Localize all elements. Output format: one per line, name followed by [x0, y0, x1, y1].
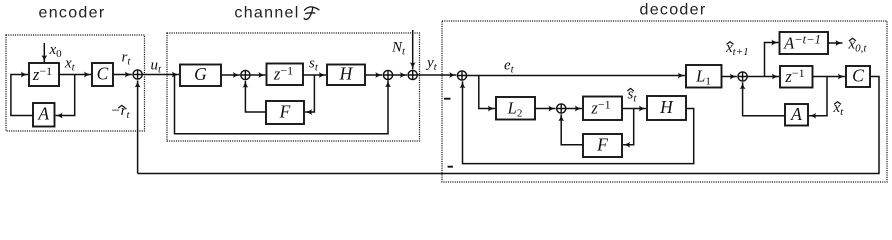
- wire ut feedthrough down and into post-H sum: [175, 75, 389, 134]
- summing junction noise: [408, 70, 417, 79]
- wire F decoder feedback into loop sum: [561, 114, 583, 145]
- wire xt branch down to A: [56, 75, 75, 116]
- svg-text:xt: xt: [64, 56, 76, 74]
- block H decoder: [647, 96, 686, 120]
- block F decoder: [583, 134, 622, 157]
- wire F feedback into channel sum: [245, 81, 266, 112]
- block A decoder: [785, 104, 808, 126]
- summing junction decoder input: [457, 71, 466, 80]
- block z^-1 decoder loop: [583, 97, 622, 121]
- block H channel: [327, 64, 365, 86]
- wire xhat_t+1 branch up to A^-t-1: [765, 43, 779, 77]
- wire rt from C to sum: [113, 74, 132, 76]
- wire A decoder feedback into state sum: [743, 82, 785, 116]
- wire st from z^-1 to H: [303, 74, 326, 76]
- node shat_t label: [627, 87, 637, 105]
- wire state sum to z^-1: [747, 76, 779, 78]
- node st label: [309, 56, 319, 74]
- svg-text:channel: channel: [234, 5, 299, 22]
- wire H to feedthrough sum: [365, 74, 382, 76]
- wire G to channel sum: [221, 74, 240, 76]
- decoder section label: [640, 2, 707, 19]
- summing junction decoder loop: [557, 104, 566, 113]
- node xhat_0t label: [848, 37, 868, 55]
- svg-text:ut: ut: [151, 58, 163, 76]
- wire sum to z^-1 channel: [250, 74, 265, 76]
- wire A feedback to z^-1: [11, 75, 33, 116]
- summing junction decoder state: [738, 72, 747, 81]
- svg-text:decoder: decoder: [640, 2, 707, 19]
- summing junction encoder: [133, 70, 142, 79]
- block L1: [686, 65, 722, 88]
- channel section label with script F: [234, 5, 318, 22]
- node Nt label: [391, 40, 406, 58]
- wire A^-t-1 output to xhat_0t: [828, 42, 843, 44]
- block F channel: [266, 101, 304, 124]
- wire xhat_t branch down to A decoder: [809, 77, 827, 116]
- svg-text:C: C: [852, 66, 864, 86]
- wire xt from z^-1 to C: [59, 74, 91, 76]
- encoder dotted box: [6, 35, 145, 131]
- block L2: [496, 97, 535, 120]
- node et label: [504, 58, 515, 76]
- summing junction channel loop: [241, 70, 250, 79]
- block G channel: [180, 64, 221, 86]
- wire -rhat_t feedback into encoder sum: [137, 81, 139, 174]
- block z^-1 channel: [267, 63, 304, 85]
- block C decoder: [846, 66, 870, 88]
- svg-text:rt: rt: [122, 50, 132, 68]
- svg-text:et: et: [504, 58, 515, 76]
- block C encoder: [92, 63, 113, 86]
- svg-text:F: F: [279, 102, 291, 122]
- wire yt from noise sum to decoder sum: [417, 74, 456, 76]
- wire ut from sum to G: [142, 74, 179, 76]
- node -rhat_t label: [111, 103, 131, 121]
- minus sign upper at decoder input sum: [444, 98, 451, 100]
- block A encoder: [33, 103, 55, 127]
- svg-text:F: F: [596, 135, 608, 155]
- wire shat_t from z^-1 to H decoder: [622, 108, 646, 110]
- node ut label: [151, 58, 163, 76]
- wire Nt input arrow: [412, 30, 414, 69]
- channel dotted box: [167, 33, 420, 141]
- block z^-1 encoder: [29, 63, 59, 86]
- wire loop sum to z^-1 decoder: [566, 108, 582, 110]
- wire et from decoder sum to L1: [467, 75, 685, 77]
- svg-text:Nt: Nt: [391, 40, 406, 58]
- node rt label: [122, 50, 132, 68]
- wire L2 to decoder loop sum: [535, 108, 556, 110]
- node x0 label: [49, 42, 63, 60]
- svg-text:C: C: [97, 63, 109, 83]
- wire x0 input arrow: [43, 43, 45, 62]
- svg-text:x0: x0: [49, 42, 63, 60]
- node xt label: [64, 56, 76, 74]
- svg-text:A: A: [790, 104, 802, 124]
- wire z^-1 to C decoder: [813, 76, 845, 78]
- minus sign lower at H return corner: [448, 166, 453, 168]
- svg-text:G: G: [194, 64, 207, 84]
- svg-text:H: H: [339, 64, 354, 84]
- summing junction feedthrough: [383, 70, 392, 79]
- wire C output outer feedback to encoder sum: [138, 77, 879, 174]
- wire L1 to state sum: [722, 76, 737, 78]
- block z^-1 decoder state: [780, 66, 813, 88]
- block A^-t-1: [780, 32, 829, 54]
- svg-text:st: st: [309, 56, 319, 74]
- svg-text:encoder: encoder: [39, 5, 106, 22]
- encoder section label: [39, 5, 106, 22]
- wire shat branch down to F decoder: [623, 109, 634, 145]
- svg-text:yt: yt: [425, 55, 438, 73]
- wire feedthrough sum to noise sum: [393, 74, 407, 76]
- node xhat_t label: [833, 100, 845, 118]
- wire H decoder return into decoder input sum: [463, 81, 694, 163]
- node xhat_t+1 label: [725, 40, 749, 58]
- decoder dotted box: [442, 21, 887, 182]
- node yt label: [425, 55, 438, 73]
- wire et branch down to L2: [479, 76, 495, 109]
- wire st branch down to F: [305, 75, 314, 112]
- svg-text:A: A: [37, 104, 49, 124]
- svg-text:H: H: [659, 97, 674, 117]
